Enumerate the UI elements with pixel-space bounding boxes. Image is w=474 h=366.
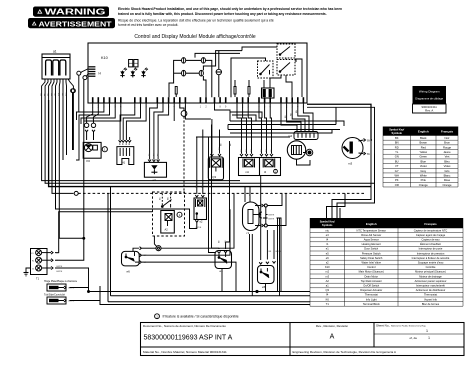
svg-text:NTC Temperature Sensor: NTC Temperature Sensor	[356, 228, 386, 232]
svg-text:Thermostat: Thermostat	[424, 293, 437, 297]
svg-text:Symbole: Symbole	[392, 132, 403, 135]
heater r1 element	[243, 202, 260, 231]
switch S1 dashed	[258, 61, 274, 78]
svg-text:58300000119693 ASP INT A: 58300000119693 ASP INT A	[144, 335, 233, 342]
svg-text:Français: Français	[424, 222, 437, 226]
svg-text:GNYE: GNYE	[268, 215, 275, 217]
svg-text:Terminal Block: Terminal Block	[363, 302, 381, 306]
svg-text:Pink: Pink	[421, 178, 427, 182]
svg-text:e1: e1	[220, 269, 224, 273]
pin numbers	[92, 107, 305, 109]
svg-text:BU: BU	[395, 159, 399, 163]
junction bulb right of e6	[156, 246, 161, 251]
svg-text:Diagramme de câblage: Diagramme de câblage	[415, 97, 443, 101]
wire bottom bus	[89, 291, 338, 293]
svg-text:GNYE: GNYE	[56, 271, 63, 273]
strap 1	[47, 284, 66, 291]
wire e5 feeds	[259, 262, 262, 264]
svg-text:Tub/Side/Cuve/côté: Tub/Side/Cuve/côté	[44, 293, 66, 296]
relay K4	[199, 70, 203, 76]
warning label FR	[28, 18, 115, 28]
footnote feature	[155, 314, 160, 319]
svg-text:K10: K10	[101, 56, 108, 60]
svg-text:m3: m3	[325, 274, 329, 278]
svg-text:Actionneur panier supérieur: Actionneur panier supérieur	[415, 279, 447, 283]
wire upper mesh right	[230, 130, 332, 134]
wire ntc l4 feeds	[237, 103, 242, 154]
svg-text:Capteur agent de rinçage: Capteur agent de rinçage	[416, 233, 446, 237]
switch inside A2	[161, 206, 163, 208]
junction on a1 wire	[71, 89, 75, 93]
valve s2 water inlet	[194, 198, 207, 220]
svg-text:Safety Float Switch: Safety Float Switch	[360, 256, 383, 260]
junction A near H	[81, 69, 89, 73]
svg-text:English: English	[418, 130, 429, 134]
svg-text:Brown: Brown	[419, 141, 427, 145]
svg-text:Contrôle: Contrôle	[426, 265, 436, 269]
wire mesh h2	[230, 112, 262, 118]
svg-text:Top Rack Actuator: Top Rack Actuator	[361, 279, 382, 283]
svg-text:Sheet No.,: Sheet No.,	[376, 324, 390, 328]
switch S3 dashed	[277, 60, 295, 76]
feature circle A2	[177, 212, 182, 217]
svg-text:Rose: Rose	[444, 178, 451, 182]
ground	[26, 268, 31, 273]
wire T1 arrows	[42, 252, 51, 254]
resistor R1	[175, 87, 177, 95]
svg-text:Thermostat: Thermostat	[365, 293, 378, 297]
svg-text:GN: GN	[395, 155, 399, 159]
wire r1 top	[249, 187, 251, 202]
svg-text:RD: RD	[51, 92, 53, 96]
wire relay links	[186, 59, 202, 61]
wire m3 loop	[307, 104, 372, 140]
svg-text:Gris: Gris	[445, 169, 451, 173]
svg-text:K6: K6	[326, 297, 330, 301]
actuator Q3 dispenser	[208, 157, 223, 180]
svg-text:Violet: Violet	[420, 164, 427, 168]
svg-text:Info Light: Info Light	[366, 297, 377, 301]
svg-text:A2: A2	[165, 228, 169, 232]
svg-text:Control and Display Module/ Mo: Control and Display Module/ Module affic…	[134, 34, 256, 40]
wire mesh h3	[232, 115, 256, 121]
wire m2 feeds	[281, 103, 297, 128]
svg-text:Heating Element: Heating Element	[362, 242, 381, 246]
svg-text:Risque de choc électrique. La: Risque de choc électrique. La réparation…	[118, 18, 274, 22]
terminal block T1	[31, 249, 48, 275]
svg-text:Interrupteur de porte: Interrupteur de porte	[419, 247, 443, 251]
svg-text:Electric Shock Hazard.Product: Electric Shock Hazard.Product Installati…	[118, 7, 342, 11]
LED D1	[120, 68, 127, 78]
wire mesh h4	[215, 103, 231, 121]
svg-text:Yellow: Yellow	[419, 150, 427, 154]
svg-text:Soupape entrée d’eau: Soupape entrée d’eau	[418, 261, 444, 265]
svg-text:Material No., Nombre Matériel,: Material No., Nombre Matériel, Número Ma…	[143, 350, 227, 354]
wire e6 routing	[161, 193, 234, 248]
switch e5 pressure	[258, 266, 275, 284]
svg-text:Moteur principal (Sicasym): Moteur principal (Sicasym)	[415, 270, 446, 274]
svg-text:Capteur de eau: Capteur de eau	[422, 238, 440, 242]
dashed feature wire	[74, 191, 78, 195]
svg-text:Aqua Sensor: Aqua Sensor	[364, 238, 379, 242]
svg-text:Capteur de température NTC: Capteur de température NTC	[414, 228, 448, 232]
relay K1	[182, 58, 186, 64]
control module K10 box	[88, 43, 307, 103]
wire A2 dashed feeds	[161, 193, 163, 205]
svg-text:Interrupteur marche/arrêt: Interrupteur marche/arrêt	[416, 284, 445, 288]
svg-text:Violet: Violet	[444, 164, 451, 168]
svg-text:Rouge: Rouge	[443, 145, 451, 149]
svg-text:Noir: Noir	[445, 136, 450, 140]
symbol key table	[141, 218, 465, 356]
svg-text:YL: YL	[395, 150, 399, 154]
wire color labels	[41, 92, 68, 96]
wire WH riser from T1	[55, 80, 84, 260]
svg-text:Interrupteur de pression: Interrupteur de pression	[417, 251, 445, 255]
svg-text:VT: VT	[395, 164, 399, 168]
svg-text:e6: e6	[127, 270, 131, 274]
svg-text:G: G	[32, 268, 34, 270]
wire s2 side verticals	[209, 137, 216, 253]
svg-text:A: A	[330, 334, 335, 341]
svg-text:BN: BN	[395, 141, 399, 145]
wire r1 terminals	[255, 205, 262, 207]
LED D2	[131, 68, 138, 78]
svg-text:Vert: Vert	[445, 155, 450, 159]
svg-text:GY: GY	[59, 92, 61, 96]
wire bus mids	[185, 103, 211, 119]
svg-text:m2: m2	[325, 270, 329, 274]
svg-text:Blue: Blue	[421, 159, 427, 163]
svg-text:formé et est très familier ave: formé et est très familier avec ce produ…	[118, 23, 178, 27]
wire top runs	[195, 53, 240, 57]
svg-text:OR: OR	[395, 183, 399, 187]
svg-text:GY: GY	[395, 169, 399, 173]
svg-text:K10: K10	[325, 265, 330, 269]
svg-text:Bloc de bornes: Bloc de bornes	[422, 302, 440, 306]
svg-text:Engineering Revision, Révision: Engineering Revision, Révision de Techno…	[293, 350, 397, 354]
svg-text:Interrupteur à flotteur de séc: Interrupteur à flotteur de sécurité	[412, 256, 450, 260]
junction circle	[71, 89, 75, 93]
svg-text:Actionneur de distributeur: Actionneur de distributeur	[416, 288, 446, 292]
svg-text:Bleu: Bleu	[444, 159, 450, 163]
wire left bundle verticals	[42, 100, 240, 181]
svg-text:WH: WH	[395, 173, 400, 177]
svg-text:a1: a1	[53, 50, 57, 54]
wire pin6 jog	[84, 103, 121, 121]
svg-text:Blanc: Blanc	[444, 173, 451, 177]
wire e6 terminals	[133, 248, 139, 251]
svg-text:BN: BN	[48, 93, 50, 96]
svg-text:Water Inlet Valve: Water Inlet Valve	[362, 261, 382, 265]
transformer TR1	[262, 88, 275, 98]
warning label EN	[33, 7, 109, 17]
svg-text:GNYE: GNYE	[275, 251, 281, 253]
svg-text:If feature is available / Si c: If feature is available / Si caractérist…	[163, 315, 239, 319]
svg-text:of, de: of, de	[409, 336, 417, 340]
feature circle 1	[102, 147, 107, 152]
svg-text:Wiring Diagram: Wiring Diagram	[419, 90, 440, 94]
switch S2 dashed	[277, 44, 295, 58]
svg-text:Black: Black	[420, 136, 427, 140]
wire pin4 jog	[76, 103, 110, 160]
resistor R3	[248, 87, 250, 95]
svg-text:m3: m3	[348, 162, 352, 166]
connector m2	[294, 132, 318, 140]
svg-text:Door Switch: Door Switch	[364, 247, 379, 251]
relay K2	[201, 58, 205, 64]
svg-text:English: English	[366, 222, 377, 226]
footer table	[141, 323, 465, 356]
svg-text:A2: A2	[326, 279, 330, 283]
svg-text:BU: BU	[45, 93, 47, 96]
svg-text:Q3: Q3	[212, 175, 216, 179]
wire H1 feeds	[120, 103, 135, 140]
svg-text:WH: WH	[56, 260, 60, 262]
resistor R2	[234, 87, 236, 95]
pin row of K10	[92, 97, 304, 103]
wire pin5 jog	[81, 103, 115, 124]
strap 2	[47, 297, 66, 304]
svg-text:Orange: Orange	[419, 183, 428, 187]
lamp K6 info light	[83, 142, 101, 158]
svg-text:Hinge Plate/Plaque à charnière: Hinge Plate/Plaque à charnière	[44, 280, 78, 283]
svg-text:Voyant Info: Voyant Info	[424, 297, 438, 301]
sensor e3 rinse aid	[144, 162, 166, 177]
wire BK riser from T1	[55, 212, 153, 253]
sensor l4 aqua	[260, 158, 281, 176]
wire e5 bottom	[265, 284, 267, 292]
svg-text:Drain Motor: Drain Motor	[364, 274, 378, 278]
svg-text:RD: RD	[395, 145, 399, 149]
svg-text:1: 1	[426, 329, 428, 333]
svg-text:Grey: Grey	[420, 169, 426, 173]
svg-text:PK: PK	[395, 178, 399, 182]
connector H	[89, 66, 96, 77]
color code table	[141, 127, 465, 356]
wire e1 feeds	[218, 251, 221, 253]
svg-text:s2: s2	[200, 220, 203, 224]
switch e6 safety float	[122, 251, 140, 266]
svg-text:Control: Control	[367, 265, 376, 269]
svg-text:White: White	[420, 173, 427, 177]
svg-text:e3: e3	[153, 178, 157, 182]
svg-text:Français: Français	[441, 130, 454, 134]
svg-text:Main Motor (Sicasym): Main Motor (Sicasym)	[359, 270, 384, 274]
wire e3 feeds	[149, 112, 151, 160]
svg-text:BN: BN	[367, 141, 371, 143]
svg-text:WH: WH	[66, 92, 68, 96]
A2 coil box	[161, 211, 175, 234]
svg-text:Pressure Switch: Pressure Switch	[362, 251, 381, 255]
svg-text:Rinse Aid Sensor: Rinse Aid Sensor	[361, 233, 381, 237]
svg-text:Dispenser Actuator: Dispenser Actuator	[360, 288, 382, 292]
connector junctions above K6	[87, 103, 93, 123]
svg-text:BK: BK	[395, 136, 399, 140]
junction B near H	[86, 73, 88, 76]
wire mesh h5	[230, 121, 344, 126]
svg-text:Symbols: Symbols	[322, 224, 333, 227]
wire Q3 feeds	[211, 119, 213, 154]
svg-text:Rev., Révision, Revisión: Rev., Révision, Revisión	[316, 324, 349, 328]
svg-text:K6: K6	[87, 159, 91, 163]
wire bundle below a1	[42, 79, 45, 100]
wire pin3 jog	[79, 103, 104, 112]
wiring diagram title box	[413, 86, 447, 104]
sensor ntc temperature	[239, 158, 260, 176]
switch e1 door	[215, 251, 232, 269]
svg-text:Q3: Q3	[326, 288, 330, 292]
svg-text:BU: BU	[367, 154, 371, 156]
svg-text:Green: Green	[420, 155, 428, 159]
svg-text:Document No., Numéro de docume: Document No., Numéro de document, Número…	[143, 324, 226, 328]
lamp L1	[216, 69, 221, 74]
svg-text:Brun: Brun	[444, 141, 450, 145]
LED D3	[141, 68, 148, 78]
svg-text:On/Off Switch: On/Off Switch	[363, 284, 380, 288]
svg-text:Red: Red	[421, 145, 426, 149]
suppressor C1	[180, 103, 184, 111]
svg-text:AVERTISSEMENT: AVERTISSEMENT	[39, 20, 112, 29]
svg-text:Rev. A: Rev. A	[425, 109, 433, 113]
svg-text:Número De Feuille, Número De l: Número De Feuille, Número De la Hoja	[391, 325, 427, 327]
relay K3	[182, 70, 186, 76]
actuator A2 top rack dashed box	[153, 192, 185, 236]
wire mesh upper	[150, 103, 158, 112]
svg-text:WARNING: WARNING	[45, 8, 106, 17]
svg-text:trained on and is fully famili: trained on and is fully familiar with, t…	[118, 12, 327, 16]
connector H1	[117, 147, 134, 165]
display	[129, 60, 133, 67]
wire right return loop	[337, 154, 375, 292]
wire s2 feeds	[195, 195, 198, 197]
svg-text:GNYE: GNYE	[56, 266, 63, 268]
svg-text:1: 1	[428, 336, 430, 340]
wire m3 terminals	[359, 140, 364, 141]
svg-text:GNYE: GNYE	[268, 219, 275, 221]
motor m3 drain	[342, 138, 363, 159]
wire color labels sprinkle	[85, 110, 298, 243]
capacitor C2	[306, 149, 313, 156]
svg-text:Moteur de drainage: Moteur de drainage	[419, 274, 442, 278]
svg-text:Jaune: Jaune	[443, 150, 451, 154]
wire mesh h1	[96, 109, 132, 111]
svg-text:m2: m2	[288, 134, 292, 138]
svg-text:Orange: Orange	[443, 183, 452, 187]
